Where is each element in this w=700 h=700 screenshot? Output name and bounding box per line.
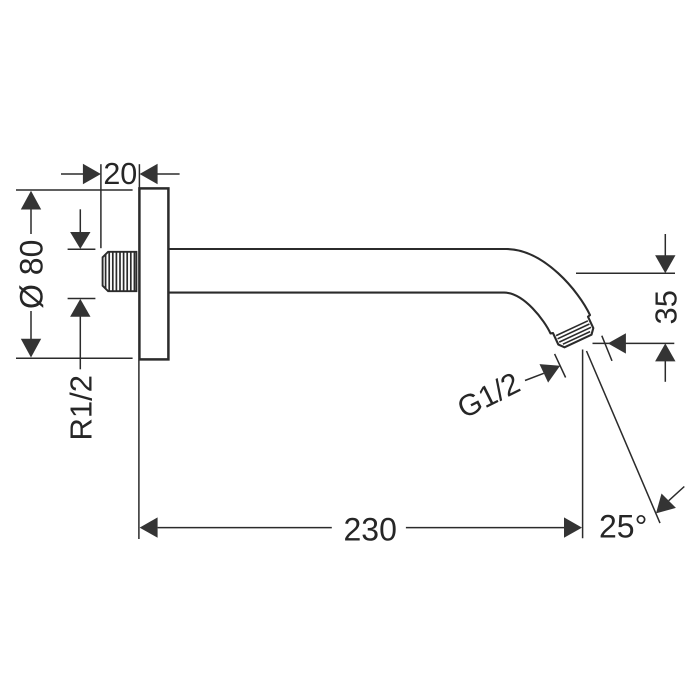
svg-text:25°: 25° [599,508,647,544]
svg-text:R1/2: R1/2 [64,375,99,440]
svg-text:230: 230 [344,512,397,548]
svg-text:35: 35 [649,290,684,324]
svg-text:Ø 80: Ø 80 [14,240,50,309]
svg-text:20: 20 [103,157,137,191]
